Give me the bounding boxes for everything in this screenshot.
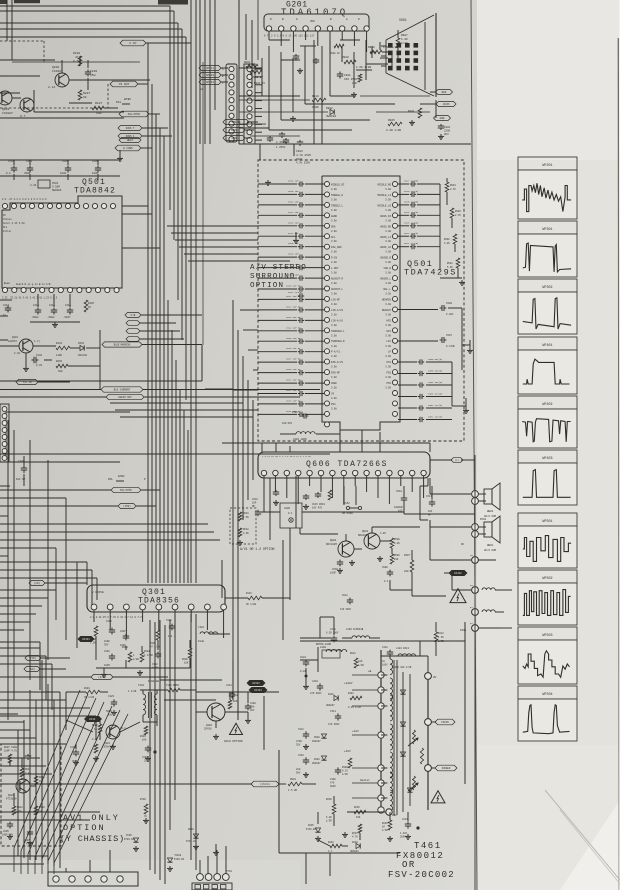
svg-text:C307: C307 xyxy=(120,630,126,633)
ground av1 box xyxy=(7,834,33,845)
svg-text:R902: R902 xyxy=(244,61,251,64)
caps C501-C506 right-lower xyxy=(398,358,452,422)
svg-text:WF302: WF302 xyxy=(542,286,552,290)
text ATBC PAL xyxy=(108,474,146,481)
svg-text:104M: 104M xyxy=(104,664,110,667)
resistor R481 0.33 xyxy=(348,692,362,709)
svg-text:R603: R603 xyxy=(455,210,461,213)
IC U501 TDA7429S body xyxy=(322,176,400,430)
inductor L404 3300U xyxy=(392,647,416,669)
svg-text:C502 242(N): C502 242(N) xyxy=(428,404,442,407)
resistor R230 6.8K xyxy=(326,798,336,822)
svg-text:WB02: WB02 xyxy=(487,510,494,513)
video section box bottom xyxy=(0,345,202,381)
wires Q606 below xyxy=(258,486,475,520)
svg-text:35V: 35V xyxy=(296,743,301,746)
svg-text:C525 1UF: C525 1UF xyxy=(288,242,299,245)
node pill small1 xyxy=(126,321,176,326)
ground flyback left xyxy=(303,668,309,777)
svg-text:P-A/Y1: P-A/Y1 xyxy=(331,351,341,354)
fan wires to bottom connector xyxy=(0,642,60,868)
svg-text:R608: R608 xyxy=(394,538,400,541)
svg-text:(17B): (17B) xyxy=(98,676,106,679)
transistor Q103 C3198Y xyxy=(0,91,13,115)
IC G201 TDA6107Q label xyxy=(281,1,348,18)
svg-text:IF: IF xyxy=(3,214,7,217)
svg-text:T461: T461 xyxy=(414,841,442,851)
resistor R906 2.2M xyxy=(408,108,422,118)
svg-text:3.98: 3.98 xyxy=(385,366,391,369)
lower-left horizontal rails dense xyxy=(0,590,66,774)
CRT funnel outline xyxy=(381,13,436,97)
resistor R234 110K xyxy=(56,342,70,357)
resistor R622 3.9K xyxy=(237,528,249,545)
svg-text:2.7K: 2.7K xyxy=(450,188,456,191)
capacitor C911 470 600V xyxy=(340,594,353,611)
svg-text:OR: OR xyxy=(402,860,416,870)
svg-text:HP1: HP1 xyxy=(386,330,391,333)
svg-text:L403 KLM601B: L403 KLM601B xyxy=(346,628,364,631)
page fold line right xyxy=(471,0,477,890)
wires Q606 top entries xyxy=(222,438,430,452)
text P602 xyxy=(480,518,487,521)
svg-text:AUXOUT-R: AUXOUT-R xyxy=(331,278,344,281)
svg-text:3.98: 3.98 xyxy=(385,282,391,285)
svg-text:LIN-A/V1: LIN-A/V1 xyxy=(331,319,344,322)
svg-text:C310: C310 xyxy=(298,754,304,757)
ground sym crt2 xyxy=(409,120,415,125)
resistor R231 4.7K xyxy=(352,824,362,838)
svg-text:4.7: 4.7 xyxy=(328,850,333,853)
svg-text:D902: D902 xyxy=(326,107,333,110)
svg-text:.0082: .0082 xyxy=(31,316,39,319)
transistor Q802 KRC102M xyxy=(326,539,354,557)
svg-text:BASSO_R: BASSO_R xyxy=(380,257,391,260)
text DK xyxy=(461,543,464,546)
svg-text:BLUE MARKING: BLUE MARKING xyxy=(114,343,131,346)
waveform box WF302 xyxy=(518,279,577,334)
G201 pin labels xyxy=(270,18,360,23)
svg-text:BASS_LI: BASS_LI xyxy=(380,236,391,239)
wires inside CRT box xyxy=(239,30,398,130)
svg-text:6.8K: 6.8K xyxy=(444,242,450,245)
svg-text:D302: D302 xyxy=(314,736,320,739)
svg-text:3.98: 3.98 xyxy=(331,198,337,201)
G201 pin values xyxy=(264,35,315,38)
inductor L808 wires top xyxy=(300,647,318,672)
svg-text:R905: R905 xyxy=(388,119,395,122)
capacitor C310 22U 50V xyxy=(296,754,309,774)
svg-text:C519 1UF: C519 1UF xyxy=(288,180,299,183)
wires av box bottom exit xyxy=(340,430,380,452)
wire ys out xyxy=(138,83,148,85)
svg-text:SVHS Y: SVHS Y xyxy=(126,127,135,130)
transformer T401 KLN201B xyxy=(128,680,159,722)
wires q201 area xyxy=(0,330,100,366)
svg-text:C527 1UF: C527 1UF xyxy=(288,263,299,266)
svg-text:C523 1UF: C523 1UF xyxy=(288,221,299,224)
svg-text:R107: R107 xyxy=(95,102,102,105)
wires av1 box xyxy=(10,758,36,806)
svg-text:WF401: WF401 xyxy=(542,344,552,348)
capacitor C402 222 xyxy=(142,746,157,763)
capacitor C615 + R619 xyxy=(312,490,332,509)
node E-CVBS pill xyxy=(115,145,141,151)
svg-text:160V: 160V xyxy=(382,663,388,666)
transistor Q201 A1266 xyxy=(8,336,41,355)
resistor R606 24K xyxy=(390,554,400,564)
IC Q301 TDA8356 body xyxy=(87,585,225,612)
resistor R225 1K xyxy=(84,300,94,312)
wire B+ vertical xyxy=(420,478,428,486)
node YS-OUT pill xyxy=(110,81,138,87)
svg-text:3.98: 3.98 xyxy=(385,345,391,348)
svg-text:Q103: Q103 xyxy=(2,108,9,111)
capacitor C301 104M xyxy=(104,650,115,667)
svg-text:2N4148: 2N4148 xyxy=(78,354,88,357)
svg-text:R404: R404 xyxy=(84,687,90,690)
svg-text:C423: C423 xyxy=(108,695,115,698)
svg-text:470 600V: 470 600V xyxy=(310,692,322,695)
svg-text:MIDDLE_LI: MIDDLE_LI xyxy=(377,194,391,197)
capacitor C616 1UP NP xyxy=(252,498,261,516)
svg-text:AUDIO OUT: AUDIO OUT xyxy=(118,396,132,399)
resistor R300 0.33 xyxy=(342,758,352,776)
svg-text:PAL/NTSC: PAL/NTSC xyxy=(128,112,141,116)
svg-text:4.43: 4.43 xyxy=(30,184,37,187)
svg-text:C522 1UF: C522 1UF xyxy=(288,211,299,214)
svg-text:LIN-RF: LIN-RF xyxy=(331,298,341,301)
resistor R308 10K xyxy=(182,648,192,664)
svg-text:D301: D301 xyxy=(314,758,320,761)
svg-text:3WA937: 3WA937 xyxy=(326,704,335,707)
svg-text:3.98: 3.98 xyxy=(331,188,337,191)
svg-text:3.98: 3.98 xyxy=(331,345,337,348)
resistor R402 1K xyxy=(92,724,102,733)
Q501 top pin row xyxy=(2,203,115,208)
resistor R236 680 xyxy=(56,360,68,373)
svg-text:2 6 11 61 49 4 1 4 3 10 5 12: 2 6 11 61 49 4 1 4 3 10 5 12 6 L 8 15 xyxy=(262,455,311,458)
svg-text:WF301: WF301 xyxy=(82,638,90,641)
svg-text:CREF: CREF xyxy=(331,382,338,385)
svg-text:C521 1UF NP: C521 1UF NP xyxy=(286,379,301,382)
bottom mid components extra xyxy=(140,677,265,698)
ground below flyback xyxy=(315,832,411,841)
svg-text:WF303: WF303 xyxy=(252,682,260,685)
svg-text:RED: RED xyxy=(442,91,447,94)
capacitor C617 1UF NP xyxy=(426,486,435,516)
svg-text:1/2R: 1/2R xyxy=(358,664,364,667)
svg-text:WF402: WF402 xyxy=(542,403,552,407)
svg-text:KLN201B: KLN201B xyxy=(148,680,159,683)
svg-text:3.98: 3.98 xyxy=(331,219,337,222)
svg-text:100P 4.7U: 100P 4.7U xyxy=(4,749,17,752)
svg-text:ΔTBC: ΔTBC xyxy=(118,474,125,478)
svg-text:2.3 .47 4.4 2 3.8 1 2 3 2 3 2: 2.3 .47 4.4 2 3.8 1 2 3 2 3 2.3 xyxy=(2,198,47,201)
node SCREEN xyxy=(425,765,457,772)
svg-text:(17A/G): (17A/G) xyxy=(260,783,271,786)
svg-text:50V: 50V xyxy=(296,771,301,774)
svg-text:AV1 ONLY: AV1 ONLY xyxy=(63,813,120,823)
svg-text:HV: HV xyxy=(433,676,437,679)
connector ladder P901 two-column xyxy=(226,64,237,142)
ground mid bottom xyxy=(213,844,219,855)
svg-text:GRN: GRN xyxy=(440,117,445,120)
waveform box WF402 xyxy=(518,396,577,448)
svg-text:P401: P401 xyxy=(460,629,467,632)
svg-text:WF302: WF302 xyxy=(454,572,462,575)
flyback node stubs xyxy=(352,675,378,798)
svg-text:R920: R920 xyxy=(342,56,349,59)
PAL label small xyxy=(116,97,131,104)
svg-text:C521 1UF NP: C521 1UF NP xyxy=(286,295,301,298)
svg-text:(CD): (CD) xyxy=(34,582,41,585)
svg-text:600V: 600V xyxy=(330,785,336,788)
svg-text:+180V: +180V xyxy=(344,682,353,685)
resistor R909 2.2K xyxy=(342,56,371,69)
text 1HCH OPTION xyxy=(224,740,243,743)
svg-text:C907: C907 xyxy=(352,82,358,85)
svg-text:REAOUT: REAOUT xyxy=(382,309,392,312)
ground av right2 xyxy=(462,340,473,353)
wires pills to connector xyxy=(200,68,228,91)
svg-text:PS3: PS3 xyxy=(386,382,391,385)
svg-text:3.98: 3.98 xyxy=(385,240,391,243)
svg-text:+B: +B xyxy=(368,670,372,673)
resistor R621 7.5K xyxy=(238,512,249,521)
resistor R811 91K xyxy=(34,776,45,785)
svg-text:SERIES: SERIES xyxy=(52,189,62,192)
svg-text:WF301: WF301 xyxy=(542,228,552,232)
node pill WF302 tag xyxy=(444,570,467,575)
node pill WF401 tag xyxy=(85,716,102,721)
wire Q501 right edge to bus xyxy=(122,206,160,248)
svg-text:1 250V: 1 250V xyxy=(276,146,286,149)
IC U501 label xyxy=(404,259,457,278)
svg-text:15U: 15U xyxy=(90,74,96,77)
svg-text:KRA102M: KRA102M xyxy=(358,534,369,537)
capacitor C232 0.33 xyxy=(32,354,43,367)
node pill HD xyxy=(24,667,66,672)
text +180V xyxy=(344,682,353,685)
svg-text:R234: R234 xyxy=(56,342,63,345)
transistor Q404 2SC5698 xyxy=(204,703,225,730)
svg-text:HP2: HP2 xyxy=(386,319,391,322)
resistor R901 1.5 9R xyxy=(288,778,316,792)
resistor R228 47 0.5W xyxy=(73,52,82,66)
jumper J152 ON MONO xyxy=(342,502,362,515)
wire C-SYNC xyxy=(146,42,191,44)
connector ladder P902 xyxy=(244,64,255,144)
svg-text:Q802: Q802 xyxy=(330,539,337,542)
svg-text:1U: 1U xyxy=(3,314,7,317)
transistor Q803 KTC3198 xyxy=(6,779,30,800)
svg-text:WF503: WF503 xyxy=(542,634,552,638)
diode D481 3WA937 xyxy=(326,693,338,707)
left column pills extra xyxy=(118,120,258,141)
svg-text:C521 1UF: C521 1UF xyxy=(288,200,299,203)
svg-text:0.1: 0.1 xyxy=(288,512,293,515)
svg-text:1.5 9R: 1.5 9R xyxy=(288,789,298,792)
bus lines below Q301 xyxy=(150,614,196,884)
svg-text:1UF/16V: 1UF/16V xyxy=(282,422,293,425)
svg-text:0.33 1/2R: 0.33 1/2R xyxy=(348,706,361,709)
svg-text:47 1/2W: 47 1/2W xyxy=(150,645,161,648)
node pill WF301 tag xyxy=(78,636,94,641)
svg-text:PLL: PLL xyxy=(3,226,8,229)
capacitor C902 1 250V xyxy=(276,132,286,144)
node pill 17B2 xyxy=(97,674,99,676)
ground crt4 xyxy=(438,134,444,139)
dashed box top-left xyxy=(0,41,108,108)
resistor R403 100 xyxy=(140,726,148,741)
svg-text:2.2W 1/2R: 2.2W 1/2R xyxy=(386,128,401,132)
ground av left xyxy=(265,180,299,243)
svg-text:SCREEN: SCREEN xyxy=(442,767,451,770)
text V DRIVE xyxy=(92,591,104,594)
svg-text:C520 1UF NP: C520 1UF NP xyxy=(286,285,301,288)
svg-text:VAR_R: VAR_R xyxy=(383,267,391,270)
long verticals lower mid xyxy=(222,443,296,720)
svg-text:R412: R412 xyxy=(438,632,444,635)
fan diagonals bottom-left xyxy=(14,690,128,874)
resistor R905 2.2W xyxy=(386,119,402,132)
svg-text:WF504: WF504 xyxy=(542,693,552,697)
svg-text:R606: R606 xyxy=(394,554,400,557)
ground q301 left xyxy=(101,668,107,677)
wire e-cvbs xyxy=(141,147,152,149)
svg-text:DY09: DY09 xyxy=(126,834,132,837)
bus lines upper mid xyxy=(200,0,215,144)
svg-text:PS4: PS4 xyxy=(331,403,336,406)
svg-text:DY08: DY08 xyxy=(140,798,146,801)
svg-text:PAL/NTSC: PAL/NTSC xyxy=(120,489,133,492)
svg-text:C501 162(N): C501 162(N) xyxy=(428,416,442,419)
svg-text:(Y CHASSIS): (Y CHASSIS) xyxy=(60,834,125,844)
capacitor C881 0.01 xyxy=(300,656,309,678)
text +B xyxy=(368,670,372,673)
svg-text:NEARIN: NEARIN xyxy=(382,298,392,301)
waveform box WF401 xyxy=(518,337,577,394)
svg-text:3.98: 3.98 xyxy=(331,334,337,337)
svg-text:Q201: Q201 xyxy=(12,336,19,339)
rail 17A/G xyxy=(0,781,286,787)
CRT socket pin squares xyxy=(388,43,418,70)
screen pot arrow xyxy=(408,776,418,791)
svg-text:10V 47K: 10V 47K xyxy=(312,506,323,509)
crt box extra wires xyxy=(239,96,430,136)
inductor L301 10uH xyxy=(198,626,230,643)
Q501 bottom pin row xyxy=(2,287,119,292)
svg-text:1 1/2R: 1 1/2R xyxy=(128,690,137,693)
wires below G201 xyxy=(260,40,322,160)
svg-text:BAL_L: BAL_L xyxy=(383,288,391,291)
svg-text:10UF: 10UF xyxy=(330,571,337,574)
svg-text:662: 662 xyxy=(234,694,239,697)
svg-text:ΔTBC: ΔTBC xyxy=(124,97,131,101)
svg-text:3.98: 3.98 xyxy=(385,355,391,358)
wire lower joins xyxy=(56,620,222,700)
resistor R810 2.4K xyxy=(20,768,31,777)
resistor R812 470 xyxy=(12,806,23,815)
second fold shadow xyxy=(560,810,620,884)
flyback right side diodes xyxy=(400,672,412,812)
svg-text:100K: 100K xyxy=(312,106,319,109)
svg-text:18CH: 18CH xyxy=(60,172,67,175)
svg-text:3300U 100 1/2R: 3300U 100 1/2R xyxy=(392,666,412,669)
fold shadow bottom right xyxy=(545,790,620,880)
ferrite beads P401 xyxy=(478,560,504,628)
capacitor C901 15U 250V xyxy=(337,72,358,82)
svg-text:3.98: 3.98 xyxy=(331,251,337,254)
svg-text:R621: R621 xyxy=(243,512,249,515)
capacitor C308 102 xyxy=(166,619,175,638)
svg-text:100: 100 xyxy=(142,738,147,741)
svg-text:KT29.2R: KT29.2R xyxy=(306,828,316,831)
flyback T461 left winding xyxy=(378,650,393,813)
svg-text:C232: C232 xyxy=(36,354,43,357)
svg-text:C525 1UF NP: C525 1UF NP xyxy=(286,337,301,340)
text 0.47 xyxy=(92,738,98,753)
svg-text:R-IN: R-IN xyxy=(331,257,338,260)
svg-text:0.5W: 0.5W xyxy=(73,60,80,63)
node C-SYNC pill xyxy=(120,40,146,46)
wires t401 area xyxy=(0,692,157,749)
resistor R462 xyxy=(228,700,239,709)
svg-text:R910: R910 xyxy=(312,95,319,98)
more CRT box wires xyxy=(239,14,388,128)
wires into left col xyxy=(258,184,280,278)
capacitor C306 100U xyxy=(104,620,115,646)
svg-text:100U: 100U xyxy=(120,644,126,647)
svg-text:470 600V: 470 600V xyxy=(328,723,340,726)
svg-text:4.06: 4.06 xyxy=(380,532,386,535)
left edge ladder mid xyxy=(0,404,9,462)
rail y812 xyxy=(0,811,100,813)
svg-text:Beam: Beam xyxy=(4,282,10,285)
svg-text:1.5K: 1.5K xyxy=(438,636,444,639)
svg-text:KT29.1R: KT29.1R xyxy=(186,840,197,843)
focus pot arrow xyxy=(408,730,418,746)
svg-text:MIDDLE_RO: MIDDLE_RO xyxy=(377,184,391,187)
svg-text:L001 100M: L001 100M xyxy=(293,438,307,441)
svg-text:1K: 1K xyxy=(88,306,92,309)
svg-text:WB01: WB01 xyxy=(487,544,494,547)
svg-text:+46V: +46V xyxy=(344,750,351,753)
resistor R603 2.7K xyxy=(450,208,461,218)
svg-text:R228: R228 xyxy=(73,52,80,55)
waveform box WF201 xyxy=(518,157,577,219)
resistor R236b 10K xyxy=(354,806,366,819)
svg-text:PS2: PS2 xyxy=(386,372,391,375)
svg-text:C512 223(N): C512 223(N) xyxy=(404,232,418,235)
connector P801 bottom-left xyxy=(48,872,138,886)
svg-text:24K: 24K xyxy=(394,558,399,561)
ground av right1 xyxy=(452,362,469,413)
svg-text:C516 223(N): C516 223(N) xyxy=(404,190,418,193)
svg-text:R116: R116 xyxy=(246,592,252,595)
components above TDA8842 xyxy=(0,150,123,180)
svg-text:A1266Y: A1266Y xyxy=(8,340,18,343)
svg-text:1/2W: 1/2W xyxy=(133,658,139,661)
svg-text:MIDDLE_LO: MIDDLE_LO xyxy=(377,204,391,207)
svg-text:3.98: 3.98 xyxy=(385,219,391,222)
IC Q301 label xyxy=(138,588,180,606)
dashed option box A/V stereo xyxy=(258,160,464,441)
warning triangle flyback xyxy=(431,791,445,803)
wire elbows bus to AV box xyxy=(167,226,290,261)
top edge mark 1 xyxy=(14,0,40,3)
